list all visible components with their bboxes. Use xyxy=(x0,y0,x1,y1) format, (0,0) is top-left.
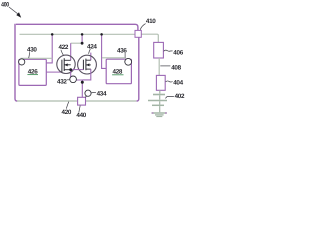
svg-text:422: 422 xyxy=(59,44,69,51)
svg-text:400: 400 xyxy=(1,2,9,9)
wire: source node horizontal to center xyxy=(71,79,83,81)
wire: top supply rail xyxy=(20,33,136,35)
wire: cross-couple Q422 source to Q424 gate xyxy=(71,69,84,71)
Q422 body stub xyxy=(64,64,71,66)
battery plate B (long) xyxy=(148,100,167,102)
leader 440 xyxy=(79,106,80,113)
underline 428 xyxy=(112,74,123,76)
svg-text:430: 430 xyxy=(27,47,37,54)
junction at Q422 source xyxy=(69,68,72,71)
Q424 source stub xyxy=(86,68,91,70)
wire plate B to C xyxy=(159,101,161,104)
wire along top of box 428 xyxy=(102,57,126,59)
svg-text:434: 434 xyxy=(97,90,107,97)
sense element square 440 xyxy=(78,97,86,105)
leader 402 xyxy=(165,97,174,99)
ground bar 1 purple caps xyxy=(152,112,167,114)
resistor 406 xyxy=(154,42,164,58)
leader 432 xyxy=(67,79,70,81)
Q424 body stub xyxy=(86,64,91,66)
wire: source of Q424 down xyxy=(82,69,91,80)
svg-text:402: 402 xyxy=(175,93,185,100)
wire: gate feed left (rail to box 426) xyxy=(47,35,53,63)
junction on rail (right) xyxy=(100,33,103,36)
svg-text:408: 408 xyxy=(171,64,181,71)
leader 424 xyxy=(89,49,91,54)
Q424 drain stub xyxy=(86,59,91,61)
wire: drain lead of Q422 xyxy=(70,43,72,60)
leader 404 xyxy=(166,81,173,82)
junction at drain manifold xyxy=(81,42,84,45)
wire: drain lead of Q424 xyxy=(90,53,92,61)
ground bar 2 xyxy=(155,114,164,116)
svg-text:410: 410 xyxy=(146,18,156,25)
svg-text:406: 406 xyxy=(173,49,183,56)
svg-text:424: 424 xyxy=(87,43,97,50)
svg-text:436: 436 xyxy=(117,47,127,54)
wire: source of Q422 down xyxy=(70,70,72,80)
node square 410 xyxy=(135,30,141,37)
battery plate C xyxy=(152,104,164,106)
underline 426 xyxy=(27,74,38,76)
wire plate C to ground xyxy=(159,106,161,112)
leader 408 xyxy=(160,65,170,67)
wire: bottom rail 420 xyxy=(17,100,136,102)
Q424 body arrow xyxy=(86,63,89,66)
svg-text:432: 432 xyxy=(57,78,67,85)
leader 420 xyxy=(66,102,69,109)
leader 406 xyxy=(164,50,173,51)
Q422 channel bar xyxy=(63,58,65,71)
Q424 channel bar xyxy=(85,59,87,71)
outer enclosure: right edge below node 410 xyxy=(137,37,139,101)
Q422 gate bar xyxy=(61,60,63,72)
outer enclosure: left edge xyxy=(15,24,17,101)
svg-text:404: 404 xyxy=(173,80,183,87)
junction on rail (left) xyxy=(51,33,54,36)
Q422 source stub xyxy=(64,69,71,71)
leader 422 xyxy=(61,50,64,56)
leader 436 xyxy=(124,53,126,58)
battery plate A xyxy=(153,94,165,96)
wire: between resistors xyxy=(158,58,160,75)
junction below node 432 xyxy=(81,81,84,84)
wire: center node down to element 440 xyxy=(81,80,83,97)
wire: resistor 404 to stack xyxy=(159,90,161,93)
wire: node 410 to resistor 406 xyxy=(141,34,158,42)
leader 430 xyxy=(28,52,31,58)
Q422 body arrow xyxy=(65,63,68,66)
transistor Q422 circle xyxy=(57,55,75,73)
gate node circle 430 xyxy=(19,59,25,65)
svg-text:420: 420 xyxy=(62,109,72,116)
wire: gate feed right (rail to box 428) xyxy=(102,35,107,69)
wire along top of box 426 xyxy=(21,57,53,59)
wire: gate of Q422 from box 426 xyxy=(47,71,62,73)
wire: drain feed vertical from rail xyxy=(81,35,83,43)
gate node circle 436 xyxy=(125,58,132,65)
gate driver box 426 xyxy=(19,59,46,85)
stub 434 to square 440 xyxy=(85,96,86,98)
leader arrow for 400 xyxy=(9,7,18,14)
svg-text:440: 440 xyxy=(76,112,86,119)
leader 434 xyxy=(91,91,96,93)
Q424 gate bar xyxy=(82,60,84,70)
Q422 drain stub xyxy=(64,59,71,61)
leader 410 xyxy=(140,24,145,30)
ground bar 1 xyxy=(152,112,167,114)
node circle 432 xyxy=(70,76,77,83)
wire between plates xyxy=(159,95,161,99)
outer enclosure: top edge xyxy=(16,24,138,30)
transistor Q424 circle xyxy=(78,55,97,74)
junction on rail (center) xyxy=(81,33,84,36)
node circle 434 xyxy=(85,90,91,96)
ground bar 3 xyxy=(156,116,162,118)
wire: drain manifold horizontal xyxy=(71,42,83,44)
gate driver box 428 xyxy=(106,59,131,83)
resistor 404 xyxy=(156,75,165,90)
